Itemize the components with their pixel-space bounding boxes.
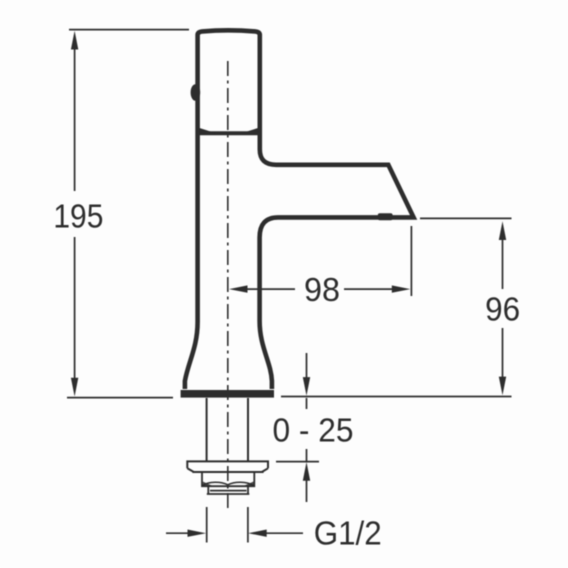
dim 98 line left segment	[246, 288, 295, 290]
svg-text:98: 98	[304, 271, 340, 308]
dim 195 bottom extension line	[67, 397, 173, 399]
joint right wedge	[242, 128, 258, 133]
flange top tick extension	[276, 461, 319, 463]
dim 195 up arrow	[71, 31, 78, 50]
dim 0-25 stub below base line	[306, 398, 308, 409]
joint left wedge	[200, 128, 217, 133]
spout tip vertical extension line	[410, 226, 412, 296]
handle joint line	[199, 131, 258, 135]
thread shade left wedge	[203, 482, 212, 486]
dim 195 line upper segment	[74, 46, 76, 191]
aerator mark under spout tip	[378, 213, 393, 220]
G1/2 right shaft	[264, 532, 303, 534]
dim 96 line upper segment	[502, 238, 504, 289]
locknut body	[202, 472, 254, 486]
G1/2 right extension line	[247, 507, 249, 543]
G1/2 right arrow pointing right	[188, 530, 207, 537]
thread crown wavy line	[203, 482, 254, 485]
G1/2 left extension line	[206, 507, 208, 543]
svg-text:0 - 25: 0 - 25	[273, 411, 354, 448]
svg-text:G1/2: G1/2	[314, 514, 382, 551]
dim 96 up arrow	[499, 221, 506, 240]
shank right line	[247, 398, 249, 461]
faucet outer contour	[185, 30, 414, 389]
dim 195 down arrow	[71, 378, 78, 397]
dim 0-25 stub above tick	[306, 449, 308, 462]
base bottom right extension line	[281, 396, 512, 398]
dim 195 line lower segment	[74, 237, 76, 380]
shank left line	[206, 398, 208, 461]
dim 195 top extension line	[69, 29, 189, 31]
dim 0-25 lower shaft	[306, 479, 308, 502]
locknut lower rings	[207, 486, 250, 494]
flange top disc	[187, 461, 268, 472]
dim 96 down arrow	[499, 377, 506, 396]
spout tip horizontal extension line	[420, 217, 512, 219]
base bottom bar	[181, 390, 274, 398]
dim 0-25 up arrow	[303, 462, 310, 481]
thread shade right wedge	[244, 482, 253, 486]
dim 98 left arrow	[229, 285, 248, 292]
svg-text:195: 195	[53, 197, 103, 234]
G1/2 left arrow pointing left	[248, 530, 267, 537]
dim 96 line lower segment	[502, 328, 504, 378]
dim 98 right arrow	[392, 285, 411, 292]
centerline (vertical dash-dot axis)	[227, 61, 229, 509]
dim 98 line right segment	[344, 288, 393, 290]
G1/2 left shaft	[166, 532, 190, 534]
dim 0-25 down arrow	[303, 377, 310, 396]
svg-text:96: 96	[485, 290, 520, 327]
dim 0-25 upper shaft	[306, 353, 308, 378]
handle side button	[191, 84, 201, 101]
